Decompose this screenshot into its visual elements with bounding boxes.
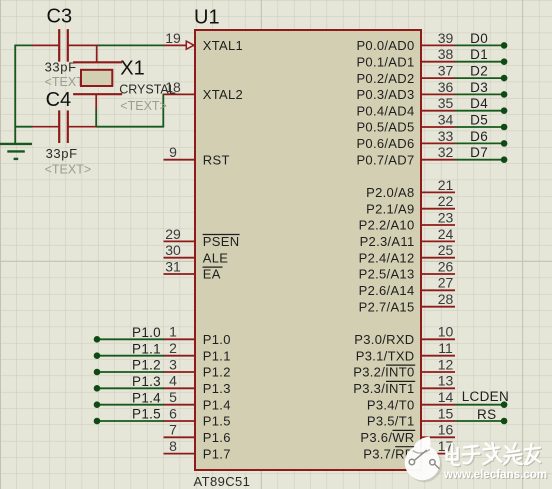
svg-text:P0.6/AD6: P0.6/AD6 [356, 136, 414, 151]
pin 22 stub (P2.1/A9) [422, 208, 455, 210]
svg-text:P1.3: P1.3 [132, 374, 161, 389]
wire net D0 [455, 44, 504, 46]
pin 26 stub (P2.5/A13) [422, 273, 455, 275]
pin 33 stub (P0.6/AD6) [422, 142, 455, 144]
wire net P1.4 [97, 404, 164, 406]
node P1.0 junction dot [94, 336, 101, 343]
node D7 junction dot [501, 156, 508, 163]
pin 17 stub (P3.7/RD) [422, 453, 455, 455]
node P1.4 junction dot [94, 401, 101, 408]
svg-text:D2: D2 [470, 64, 488, 79]
svg-text:www.elecfans.com: www.elecfans.com [443, 468, 547, 481]
op-amp U1 body (AT89C51 MCU) [195, 30, 421, 470]
pin 32 stub (P0.7/AD7) [422, 159, 455, 161]
pin 13 stub (P3.3/INT1) [422, 387, 455, 389]
svg-text:AT89C51: AT89C51 [194, 474, 251, 489]
pin 31 stub (EA) [164, 273, 195, 275]
svg-text:38: 38 [438, 46, 454, 62]
pin 36 stub (P0.3/AD3) [422, 93, 455, 95]
wire XTAL1 net horizontal [97, 44, 165, 46]
svg-text:8: 8 [169, 438, 177, 454]
wire net P1.0 [97, 338, 164, 340]
svg-text:33: 33 [438, 128, 454, 144]
svg-text:D3: D3 [470, 80, 488, 95]
svg-text:15: 15 [438, 405, 454, 421]
node RS junction dot [501, 418, 508, 425]
watermark chinese brush text 电子发烧友 (drawn strokes) [448, 444, 541, 466]
svg-text:P2.2/A10: P2.2/A10 [359, 218, 415, 233]
svg-text:P1.5: P1.5 [203, 414, 231, 429]
wire ground rail vertical [14, 45, 16, 143]
pin 1 stub (P1.0) [164, 338, 195, 340]
svg-text:P1.2: P1.2 [203, 365, 231, 380]
svg-text:P1.4: P1.4 [203, 397, 231, 412]
svg-text:XTAL2: XTAL2 [203, 87, 243, 102]
svg-text:P1.2: P1.2 [132, 358, 161, 373]
pin 16 stub (P3.6/WR) [422, 436, 455, 438]
overline EA [203, 266, 223, 268]
wire net D1 [455, 61, 504, 63]
wire net P1.3 [97, 387, 164, 389]
svg-text:27: 27 [438, 275, 454, 291]
svg-text:PSEN: PSEN [203, 234, 240, 249]
svg-text:C4: C4 [46, 89, 72, 111]
svg-text:D0: D0 [470, 31, 488, 46]
wire net D7 [455, 159, 504, 161]
svg-text:P3.4/T0: P3.4/T0 [367, 397, 415, 412]
svg-text:7: 7 [169, 422, 177, 438]
watermark leaf [414, 437, 431, 457]
svg-text:18: 18 [165, 79, 181, 95]
svg-text:33pF: 33pF [45, 59, 77, 74]
node D5 junction dot [501, 124, 508, 131]
overline PSEN [203, 234, 240, 236]
svg-text:D7: D7 [470, 145, 488, 160]
svg-text:4: 4 [169, 373, 177, 389]
wire crystal bottom to C4 net [95, 109, 97, 127]
pin 4 stub (P1.3) [164, 387, 195, 389]
overline on P3.3/INT1 [386, 380, 415, 382]
node P1.3 junction dot [94, 385, 101, 392]
svg-text:P2.5/A13: P2.5/A13 [359, 267, 415, 282]
node D2 junction dot [501, 75, 508, 82]
svg-text:22: 22 [438, 193, 454, 209]
svg-text:28: 28 [438, 291, 454, 307]
svg-text:P2.6/A14: P2.6/A14 [359, 283, 415, 298]
node P1.2 junction dot [94, 369, 101, 376]
pin 24 stub (P2.3/A11) [422, 240, 455, 242]
pin 18 stub (XTAL2) [164, 93, 195, 95]
wire C4 left to rail [14, 126, 32, 128]
svg-text:P1.4: P1.4 [132, 390, 161, 405]
overline on P3.2/INT0 [386, 364, 415, 366]
svg-text:P2.4/A12: P2.4/A12 [359, 250, 415, 265]
svg-text:P0.3/AD3: P0.3/AD3 [356, 87, 414, 102]
svg-text:P0.0/AD0: P0.0/AD0 [356, 38, 414, 53]
pin 25 stub (P2.4/A12) [422, 257, 455, 259]
svg-text:P3.6/WR: P3.6/WR [360, 430, 414, 445]
pin 2 stub (P1.1) [164, 355, 195, 357]
svg-text:P3.1/TXD: P3.1/TXD [356, 348, 415, 363]
svg-text:D6: D6 [470, 129, 488, 144]
svg-text:P1.1: P1.1 [132, 341, 161, 356]
wire C3 left to rail [14, 44, 32, 46]
wire net P1.1 [97, 355, 164, 357]
wire net D5 [455, 126, 504, 128]
wire net RS [455, 420, 504, 422]
svg-text:12: 12 [438, 356, 454, 372]
svg-text:P1.3: P1.3 [203, 381, 231, 396]
svg-text:14: 14 [438, 389, 454, 405]
pin 29 stub (PSEN) [164, 240, 195, 242]
pin 19 stub (XTAL1) [164, 44, 195, 46]
svg-text:P2.0/A8: P2.0/A8 [366, 185, 414, 200]
pin 37 stub (P0.2/AD2) [422, 77, 455, 79]
pin 10 stub (P3.0/RXD) [422, 338, 455, 340]
wire net P1.2 [97, 371, 164, 373]
svg-text:<TEXT>: <TEXT> [120, 99, 167, 113]
svg-text:39: 39 [438, 30, 454, 46]
pin 9 stub (RST) [164, 159, 195, 161]
svg-text:P0.1/AD1: P0.1/AD1 [356, 54, 414, 69]
svg-text:LCDEN: LCDEN [462, 389, 509, 404]
pin 12 stub (P3.2/INT0) [422, 371, 455, 373]
pin 23 stub (P2.2/A10) [422, 224, 455, 226]
wire net D6 [455, 142, 504, 144]
overline on P3.6/WR [393, 429, 416, 431]
svg-text:6: 6 [169, 405, 177, 421]
overline on P3.7/RD [395, 446, 415, 448]
svg-text:29: 29 [165, 226, 181, 242]
svg-text:P1.5: P1.5 [132, 407, 161, 422]
svg-text:24: 24 [438, 226, 454, 242]
svg-text:36: 36 [438, 79, 454, 95]
wire XTAL2 net horizontal [96, 126, 163, 128]
svg-text:37: 37 [438, 63, 454, 79]
wire net D3 [455, 93, 504, 95]
svg-text:1: 1 [169, 324, 177, 340]
pin 34 stub (P0.5/AD5) [422, 126, 455, 128]
wire net D2 [455, 77, 504, 79]
pin 30 stub (ALE) [164, 257, 195, 259]
svg-text:P0.2/AD2: P0.2/AD2 [356, 71, 414, 86]
svg-text:34: 34 [438, 111, 454, 127]
svg-text:C3: C3 [47, 6, 73, 28]
watermark logo circle [407, 447, 442, 482]
pin 8 stub (P1.7) [164, 453, 195, 455]
svg-text:13: 13 [438, 373, 454, 389]
pin 27 stub (P2.6/A14) [422, 289, 455, 291]
node D6 junction dot [501, 140, 508, 147]
svg-text:P0.7/AD7: P0.7/AD7 [356, 152, 414, 167]
svg-text:P1.1: P1.1 [203, 348, 231, 363]
svg-text:P1.7: P1.7 [203, 446, 231, 461]
pin 14 stub (P3.4/T0) [422, 404, 455, 406]
node P1.1 junction dot [94, 352, 101, 359]
pin 15 stub (P3.5/T1) [422, 420, 455, 422]
svg-text:33pF: 33pF [46, 146, 78, 161]
svg-text:16: 16 [438, 422, 454, 438]
wire net D4 [455, 110, 504, 112]
svg-text:P2.7/A15: P2.7/A15 [359, 299, 415, 314]
node D1 junction dot [501, 58, 508, 65]
node D0 junction dot [501, 42, 508, 49]
svg-text:30: 30 [165, 242, 181, 258]
node D4 junction dot [501, 107, 508, 114]
svg-text:RST: RST [203, 152, 230, 167]
svg-text:D1: D1 [470, 47, 488, 62]
svg-text:25: 25 [438, 242, 454, 258]
svg-text:U1: U1 [194, 7, 220, 29]
pin 28 stub (P2.7/A15) [422, 306, 455, 308]
svg-text:11: 11 [438, 340, 453, 356]
pin 35 stub (P0.4/AD4) [422, 110, 455, 112]
crystal X1 [73, 45, 122, 109]
node D3 junction dot [501, 91, 508, 98]
capacitor C3 [32, 29, 98, 62]
svg-text:9: 9 [169, 144, 177, 160]
svg-text:D4: D4 [470, 96, 488, 111]
svg-text:32: 32 [438, 144, 454, 160]
svg-text:21: 21 [438, 177, 454, 193]
svg-text:P1.0: P1.0 [203, 332, 231, 347]
svg-text:10: 10 [438, 324, 454, 340]
svg-text:P0.5/AD5: P0.5/AD5 [356, 120, 414, 135]
wire XTAL2 net vertical [162, 94, 164, 128]
pin 5 stub (P1.4) [164, 404, 195, 406]
ground [0, 144, 32, 159]
svg-text:ALE: ALE [203, 250, 229, 265]
pin 39 stub (P0.0/AD0) [422, 44, 455, 46]
svg-text:5: 5 [169, 389, 177, 405]
svg-text:26: 26 [438, 258, 454, 274]
svg-text:<TEXT>: <TEXT> [45, 162, 92, 176]
wire net P1.5 [97, 420, 164, 422]
svg-text:P3.5/T1: P3.5/T1 [367, 414, 415, 429]
svg-text:3: 3 [169, 356, 177, 372]
svg-text:EA: EA [203, 267, 221, 282]
pin 3 stub (P1.2) [164, 371, 195, 373]
node LCDEN junction dot [501, 401, 508, 408]
svg-text:P2.3/A11: P2.3/A11 [360, 234, 415, 249]
svg-text:D5: D5 [470, 112, 488, 127]
pin 21 stub (P2.0/A8) [422, 191, 455, 193]
pin 38 stub (P0.1/AD1) [422, 61, 455, 63]
node P1.5 junction dot [94, 418, 101, 425]
XTAL1 input triangle marker [186, 41, 194, 49]
svg-text:P1.0: P1.0 [132, 325, 161, 340]
svg-text:35: 35 [438, 95, 454, 111]
svg-text:P3.2/INT0: P3.2/INT0 [353, 365, 414, 380]
svg-text:P2.1/A9: P2.1/A9 [366, 201, 414, 216]
svg-text:P0.4/AD4: P0.4/AD4 [356, 103, 414, 118]
svg-text:31: 31 [165, 258, 181, 274]
svg-text:23: 23 [438, 209, 454, 225]
pin 11 stub (P3.1/TXD) [422, 355, 455, 357]
svg-text:XTAL1: XTAL1 [203, 38, 243, 53]
svg-text:P3.3/INT1: P3.3/INT1 [353, 381, 414, 396]
wire net LCDEN [455, 404, 504, 406]
svg-text:19: 19 [165, 30, 181, 46]
pin 7 stub (P1.6) [164, 436, 195, 438]
svg-text:2: 2 [169, 340, 177, 356]
svg-text:X1: X1 [120, 57, 144, 79]
svg-text:P3.0/RXD: P3.0/RXD [354, 332, 414, 347]
pin 6 stub (P1.5) [164, 420, 195, 422]
svg-text:P1.6: P1.6 [203, 430, 231, 445]
capacitor C4 [32, 110, 97, 143]
svg-text:RS: RS [477, 407, 496, 422]
